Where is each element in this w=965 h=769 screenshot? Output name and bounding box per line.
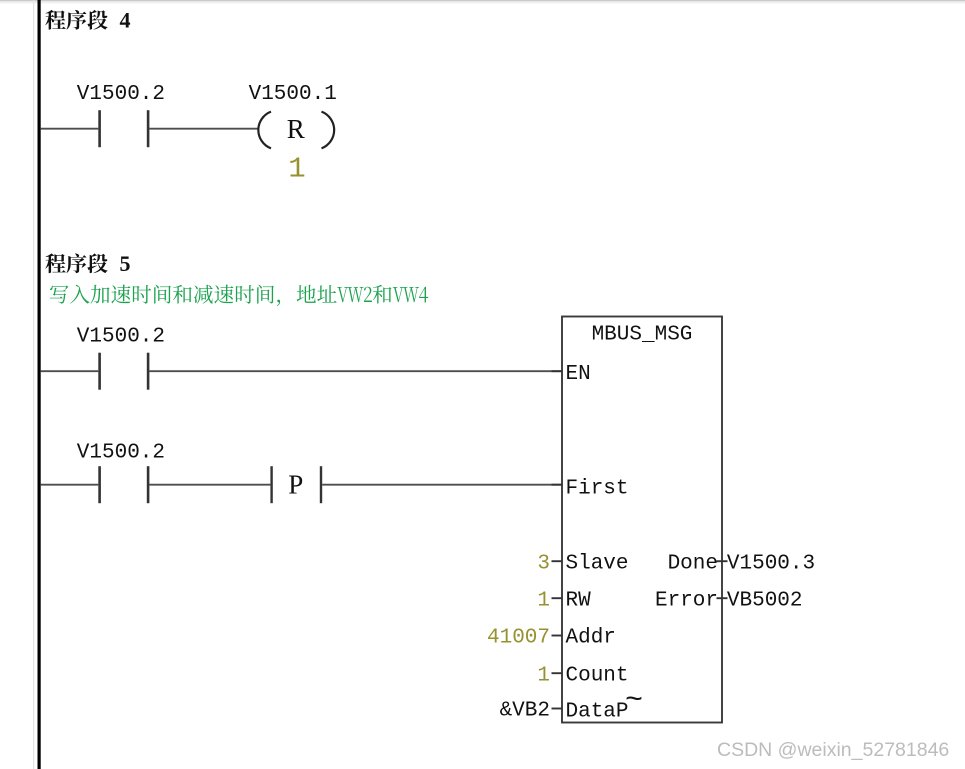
contact V1500.2 net5 rung2 left bar: [98, 466, 101, 503]
svg-text:MBUS_MSG: MBUS_MSG: [592, 323, 693, 346]
reset coil R right paren: [322, 112, 335, 149]
input tick Count: [552, 672, 563, 674]
svg-text:CSDN @weixin_52781846: CSDN @weixin_52781846: [717, 739, 949, 761]
svg-text:V1500.1: V1500.1: [249, 83, 337, 106]
positive edge contact P left bar: [270, 466, 272, 503]
network 5 comment 写入加速时间和减速时间，地址VW2和VW4: [50, 285, 428, 306]
svg-text:R: R: [287, 114, 305, 144]
svg-text:DataP: DataP: [566, 700, 629, 723]
svg-text:VB5002: VB5002: [727, 589, 803, 612]
wire contact to P contact: [149, 484, 270, 486]
svg-text:&VB2: &VB2: [500, 700, 550, 723]
wire rail to contact net5 rung2: [41, 484, 99, 486]
contact V1500.2 net4 right bar: [147, 110, 150, 147]
network 5 title 程序段: [45, 253, 107, 273]
input tick First: [552, 484, 563, 486]
wire P contact to First input: [322, 484, 562, 486]
wire rail to contact net5 rung1: [41, 370, 99, 372]
svg-text:Slave: Slave: [566, 552, 629, 575]
svg-text:5: 5: [120, 251, 131, 276]
svg-text:41007: 41007: [487, 627, 550, 650]
wire contact to coil net4: [149, 128, 258, 130]
input tick RW: [552, 597, 563, 599]
contact V1500.2 net5 rung2 right bar: [147, 466, 150, 503]
svg-text:1: 1: [537, 589, 550, 612]
function block MBUS_MSG box: [562, 317, 722, 723]
svg-text:Error: Error: [655, 589, 718, 612]
svg-text:RW: RW: [566, 589, 592, 612]
contact V1500.2 net5 rung1 left bar: [98, 353, 101, 390]
contact V1500.2 net4 left bar: [98, 110, 101, 147]
svg-text:V1500.2: V1500.2: [77, 442, 165, 465]
positive edge contact P right bar: [320, 466, 322, 503]
wire contact to EN input: [149, 370, 562, 372]
svg-text:~: ~: [625, 684, 643, 718]
svg-text:3: 3: [537, 552, 550, 575]
svg-text:4: 4: [120, 8, 131, 33]
svg-text:1: 1: [288, 152, 305, 185]
svg-text:EN: EN: [566, 363, 591, 386]
svg-text:V1500.3: V1500.3: [727, 552, 815, 575]
input tick Slave: [552, 560, 563, 562]
svg-text:First: First: [566, 477, 629, 500]
svg-text:Count: Count: [566, 664, 629, 687]
window top border: [0, 0, 965, 1]
left power rail: [38, 0, 41, 769]
svg-text:V1500.2: V1500.2: [77, 326, 165, 349]
output tick Done: [717, 560, 728, 562]
contact V1500.2 net5 rung1 right bar: [147, 353, 150, 390]
input tick DataP: [552, 708, 563, 710]
window left border faint line: [33, 0, 34, 769]
svg-text:Done: Done: [668, 552, 718, 575]
reset coil R left paren: [258, 112, 271, 149]
input tick EN: [552, 370, 563, 372]
network 4 title 程序段: [45, 10, 107, 30]
wire rail to contact net4: [41, 128, 99, 130]
svg-text:Addr: Addr: [566, 627, 616, 650]
output tick Error: [717, 597, 728, 599]
input tick Addr: [552, 635, 563, 637]
svg-text:P: P: [288, 469, 303, 499]
svg-text:1: 1: [537, 664, 550, 687]
svg-text:V1500.2: V1500.2: [77, 83, 165, 106]
